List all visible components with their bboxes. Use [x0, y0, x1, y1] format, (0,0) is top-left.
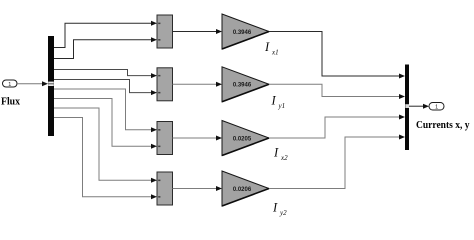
- wire: demux port 7 to Mux4 input 1: [54, 108, 151, 180]
- gain G4 (0.0206): [222, 171, 269, 206]
- svg-text:x1: x1: [271, 48, 279, 56]
- svg-text:1: 1: [8, 82, 11, 88]
- svg-text:x2: x2: [280, 154, 288, 162]
- svg-text:I: I: [272, 201, 278, 215]
- mux block M3: [157, 122, 173, 155]
- mux bar M5 (output mux): [405, 65, 409, 151]
- wire: M1 to gain G1: [173, 31, 217, 33]
- svg-text:I: I: [271, 94, 277, 108]
- outport block 1 (Currents x, y): [429, 103, 444, 111]
- wire: demux port 8 to Mux4 input 2: [54, 118, 151, 197]
- gain G1 (0.3946): [222, 14, 269, 49]
- wire: G3 to mux input 3: [269, 117, 399, 138]
- wire: G4 to mux input 4: [269, 137, 399, 189]
- wire: M4 to gain G4: [173, 188, 217, 190]
- inport block 1 (Flux): [3, 80, 18, 88]
- mux block M2: [157, 68, 173, 101]
- wire: demux port 5 to Mux3 input 1: [54, 89, 151, 130]
- wire: G1 to mux input 1: [269, 32, 399, 77]
- wire: G2 to mux input 2: [269, 84, 399, 96]
- demux D1 (vertical bar): [48, 36, 54, 136]
- svg-text:0.3946: 0.3946: [233, 30, 252, 36]
- mux output port notch: [405, 104, 409, 108]
- gain G3 (0.0205): [222, 121, 269, 156]
- svg-text:I: I: [273, 146, 279, 160]
- svg-text:y2: y2: [279, 209, 287, 217]
- svg-text:1: 1: [435, 105, 438, 111]
- wire: mux to outport: [409, 105, 423, 107]
- gain G2 (0.3946): [222, 67, 269, 102]
- mux block M1: [157, 15, 173, 48]
- wire: demux port 3 to Mux2 input 1: [54, 70, 151, 76]
- wire: demux port 2 to Mux1 input 2: [54, 40, 151, 59]
- demux input port notch: [48, 82, 54, 86]
- wire: M2 to gain G2: [173, 83, 217, 85]
- svg-text:0.0205: 0.0205: [233, 136, 252, 142]
- mux block M4: [157, 172, 173, 205]
- wire: demux port 1 to Mux1 input 1: [54, 23, 151, 47]
- svg-text:0.3946: 0.3946: [233, 83, 252, 89]
- wire: demux port 6 to Mux3 input 2: [54, 99, 151, 147]
- wire: M3 to gain G3: [173, 137, 217, 139]
- wire: Flux inport to demux: [17, 83, 43, 85]
- svg-text:Flux: Flux: [1, 96, 20, 108]
- wire: demux port 4 to Mux2 input 2: [54, 80, 151, 93]
- svg-text:Currents x, y: Currents x, y: [416, 120, 470, 131]
- svg-text:y1: y1: [278, 102, 286, 110]
- svg-text:0.0206: 0.0206: [233, 187, 252, 193]
- mux block port marks: [158, 23, 160, 198]
- svg-text:I: I: [264, 40, 270, 54]
